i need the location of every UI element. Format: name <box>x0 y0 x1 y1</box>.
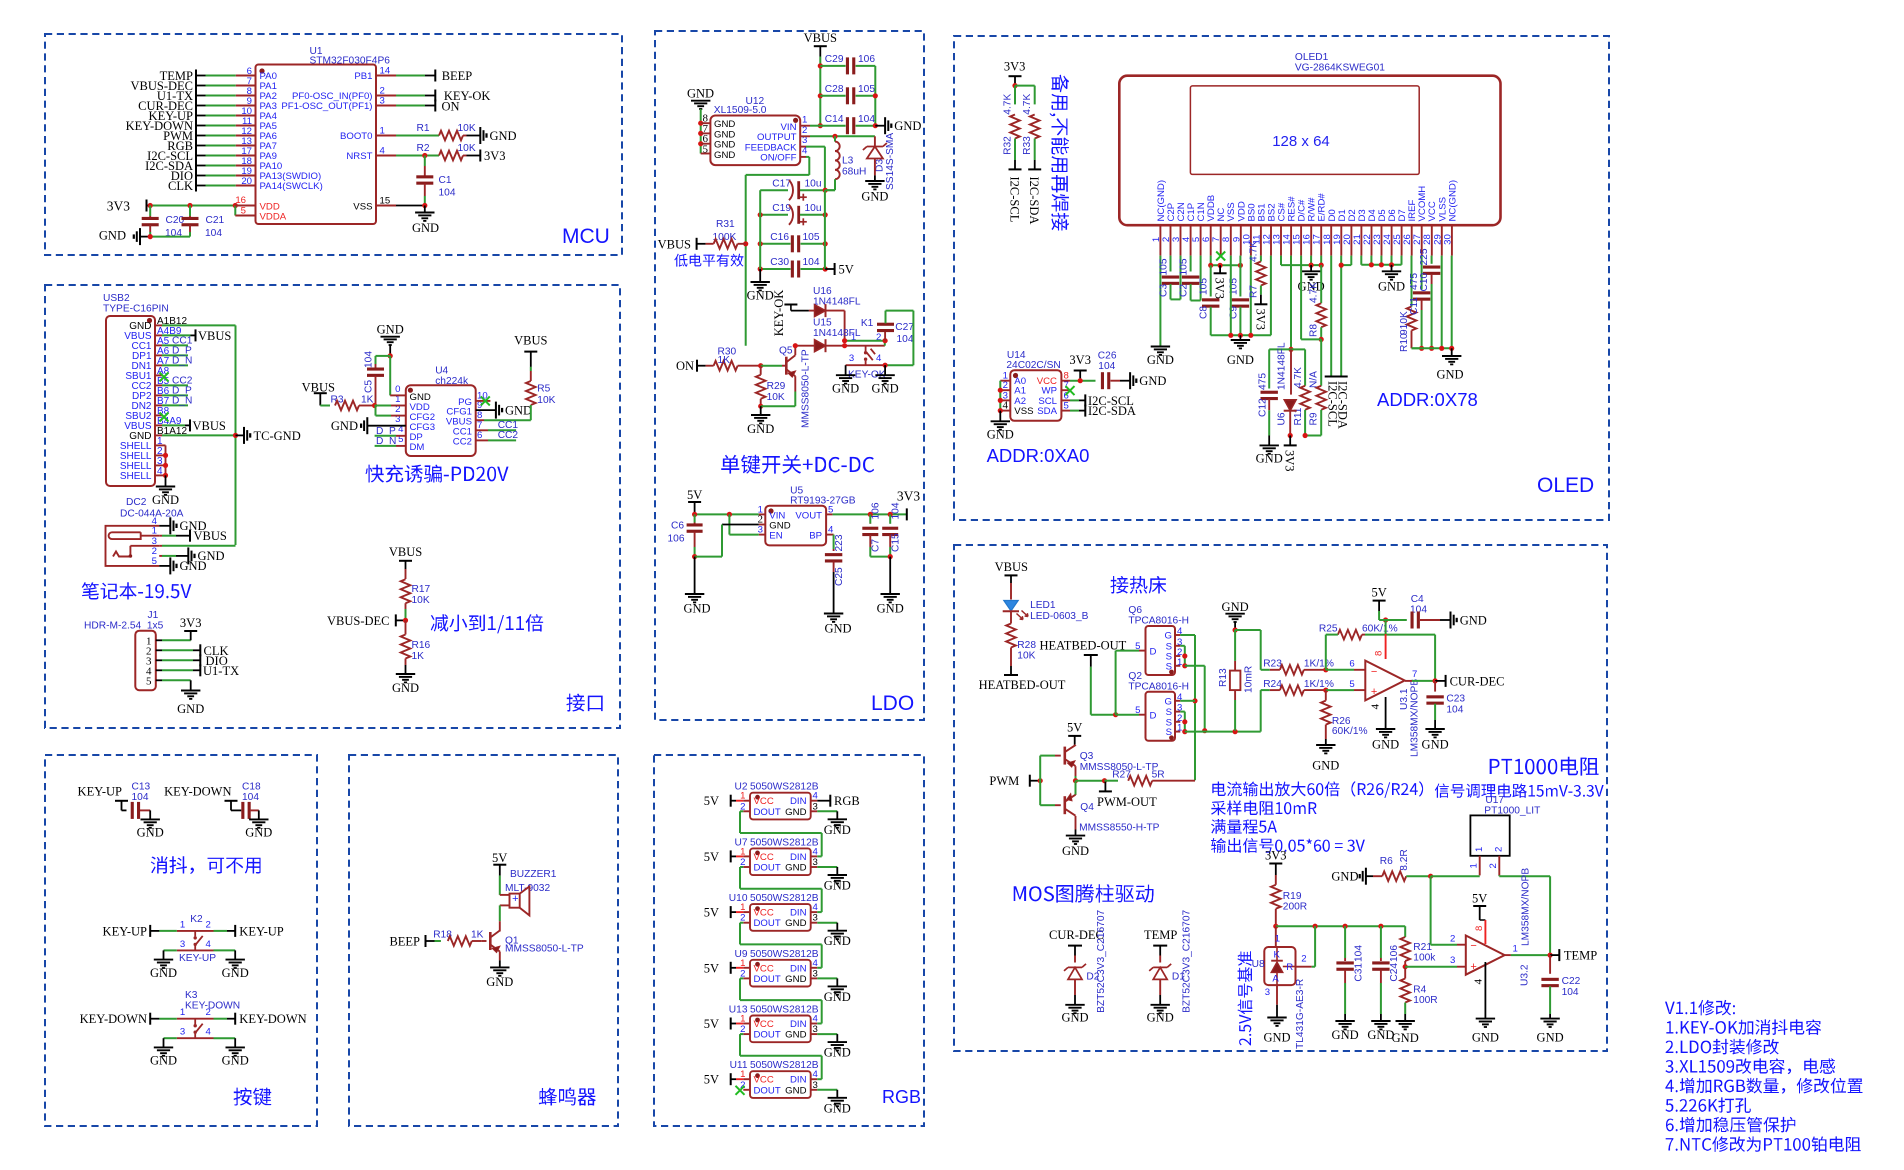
mosfet Q6 TPCA8016-H body <box>1128 605 1189 675</box>
svg-text:VBUS: VBUS <box>194 529 227 543</box>
svg-text:C25: C25 <box>834 567 845 586</box>
ground below R26 <box>1312 745 1339 773</box>
svg-text:10mR: 10mR <box>1244 666 1255 693</box>
svg-text:VBUS: VBUS <box>514 334 547 348</box>
svg-text:5050WS2812B: 5050WS2812B <box>750 893 819 904</box>
svg-text:VCC: VCC <box>754 963 774 974</box>
U1 pin 20 PA14(SWCLK) wire/net CLK <box>168 176 323 193</box>
svg-text:C11: C11 <box>1409 297 1420 315</box>
svg-text:24C02C/SN: 24C02C/SN <box>1006 360 1060 371</box>
USB2 pin A1B12 GND <box>129 316 187 332</box>
svg-text:GND: GND <box>412 221 439 235</box>
svg-text:R28: R28 <box>1017 640 1036 651</box>
svg-text:3V3: 3V3 <box>180 616 202 630</box>
svg-text:R: R <box>1286 962 1293 973</box>
svg-text:GND: GND <box>1472 1031 1499 1045</box>
note output signal <box>1211 838 1365 853</box>
svg-text:KEY-DOWN: KEY-DOWN <box>164 784 231 798</box>
resistor R5 10K <box>526 367 556 420</box>
svg-text:ADDR:0X78: ADDR:0X78 <box>1377 389 1478 410</box>
svg-text:EN: EN <box>769 531 782 542</box>
svg-text:C27: C27 <box>895 322 914 333</box>
svg-text:4.7K: 4.7K <box>1293 367 1304 388</box>
note full scale 5A <box>1211 819 1277 834</box>
U1 pin 16 VDD / pin 5 VDDA <box>235 195 286 223</box>
svg-text:TC-GND: TC-GND <box>254 429 301 443</box>
power flag 3V3 above R32 <box>1004 59 1026 88</box>
svg-text:KEY-UP: KEY-UP <box>239 924 283 938</box>
OLED1 pin 21 D3 <box>1352 209 1368 255</box>
svg-text:U17: U17 <box>1485 795 1504 806</box>
block frame keys <box>45 755 317 1126</box>
OLED1 pin 10 BS0 <box>1241 203 1257 255</box>
net flag I2C-SCL at U14 <box>1061 394 1133 408</box>
wire U7 GND pin <box>811 867 838 875</box>
J1 pin 5 <box>146 675 162 687</box>
svg-text:D: D <box>1150 646 1157 657</box>
svg-text:BP: BP <box>809 531 822 542</box>
OLED1 pin 25 D7 <box>1392 209 1408 255</box>
wire U12 FEEDBACK to 5V rail <box>800 147 825 191</box>
power flag 3V3 at U5 VOUT <box>897 489 920 521</box>
svg-text:7: 7 <box>1412 669 1417 680</box>
svg-text:+: + <box>1371 686 1377 698</box>
svg-text:GND: GND <box>222 1054 249 1068</box>
title buzzer (fengmingqi) <box>539 1088 596 1106</box>
wire DIN chain into U11 <box>811 1078 822 1080</box>
zener diode D1 BZT52C3V3 <box>1149 909 1192 1012</box>
ground left below K3 <box>150 1047 177 1067</box>
svg-text:J1: J1 <box>148 610 159 621</box>
ground flag after R1 <box>480 127 516 144</box>
title PT1000 resistor <box>1490 757 1599 776</box>
resistor R11 4.7K <box>1291 349 1310 438</box>
svg-text:475: 475 <box>1258 373 1269 390</box>
svg-text:3V3: 3V3 <box>1004 59 1026 73</box>
capacitor C23 104 <box>1426 681 1465 729</box>
svg-text:106: 106 <box>858 54 875 65</box>
reference U8 TL431G-AE3-R <box>1252 926 1307 1049</box>
svg-text:MMSS8550-H-TP: MMSS8550-H-TP <box>1079 823 1160 834</box>
svg-text:LM358MX/NOPB: LM358MX/NOPB <box>1410 679 1421 757</box>
svg-text:RT9193-27GB: RT9193-27GB <box>790 495 856 506</box>
svg-text:R19: R19 <box>1283 891 1302 902</box>
OLED1 pin 27 VCOMH <box>1412 186 1428 256</box>
svg-text:BUZZER1: BUZZER1 <box>510 869 557 880</box>
svg-text:PWM: PWM <box>989 774 1019 788</box>
svg-text:VSS: VSS <box>353 202 372 213</box>
svg-text:2: 2 <box>206 919 211 930</box>
wire DIN chain into U9 <box>811 967 822 969</box>
resistor R28 10K <box>1006 611 1036 674</box>
J1 pin5 wire to GND <box>162 680 191 690</box>
wire gate node to Q6 <box>1116 651 1146 715</box>
wire VSS/BS0/BS2 ground rail <box>1211 256 1271 338</box>
svg-text:3V3: 3V3 <box>1283 450 1297 472</box>
net flag KEY-UP right <box>214 924 284 938</box>
ground left below K2 <box>150 960 177 980</box>
chip U12 XL1509-5.0 body <box>703 96 809 165</box>
OLED1 pin 19 D1 <box>1332 209 1348 255</box>
svg-text:5V: 5V <box>1371 586 1386 600</box>
OLED1 pin 5 C1N <box>1191 202 1207 255</box>
wire gate node to Q2 <box>1116 714 1146 716</box>
svg-text:VBUS: VBUS <box>198 329 231 343</box>
svg-text:GND: GND <box>1147 353 1174 367</box>
svg-text:GND: GND <box>331 419 358 433</box>
svg-text:R31: R31 <box>716 219 735 230</box>
net label D_P on B6 <box>162 385 192 396</box>
ground below U10 <box>824 931 851 949</box>
svg-text:C30: C30 <box>770 257 789 268</box>
svg-text:R21: R21 <box>1413 942 1432 953</box>
resistor R6 8.2R <box>1373 849 1433 881</box>
svg-text:DIN: DIN <box>790 1019 807 1030</box>
svg-text:GND: GND <box>222 966 249 980</box>
power flag 5V at U10 <box>704 906 750 920</box>
svg-text:ADDR:0XA0: ADDR:0XA0 <box>987 445 1090 466</box>
ground below R29 <box>747 415 774 436</box>
capacitor C13 104 <box>131 782 151 820</box>
wire K3 pin4 to ground <box>214 1038 236 1047</box>
title fast-charge PD20V <box>365 465 508 483</box>
svg-text:K3: K3 <box>185 990 198 1001</box>
OLED1 pin 17 E/RD# <box>1312 193 1328 256</box>
power flag 5V at U7 <box>704 850 750 864</box>
svg-text:1: 1 <box>1474 847 1485 852</box>
svg-text:BEEP: BEEP <box>442 69 473 83</box>
svg-text:5V: 5V <box>687 488 702 502</box>
svg-text:4: 4 <box>876 353 882 364</box>
U1 pin 12 PA6 wire/net PWM <box>163 126 277 143</box>
block frame buzzer <box>349 755 618 1126</box>
ground right below K2 <box>222 960 249 980</box>
OLED1 pin 29 VLSS <box>1432 197 1448 256</box>
svg-text:GND: GND <box>150 966 177 980</box>
capacitor C4 104 <box>1386 594 1451 629</box>
ground below VSS <box>412 206 439 236</box>
subtitle signal conditioning <box>1435 783 1604 797</box>
power flag 3V3 at U14 VCC <box>1069 353 1091 381</box>
capacitor C3 105 (C2P-C2N) <box>1159 256 1181 300</box>
OLED1 pin 22 D4 <box>1362 209 1378 256</box>
USB2 pin B5 CC2 <box>131 376 169 392</box>
power flag 5V at U5 <box>687 488 702 514</box>
resistor R25 60K/1% feedback <box>1319 623 1435 681</box>
ground below U3.2 <box>1472 1019 1499 1045</box>
ground flag left of C20 <box>99 228 150 245</box>
ground below C12 <box>1256 445 1283 465</box>
svg-text:R33: R33 <box>1022 136 1033 155</box>
wire R23 to op-amp pin6 <box>1326 669 1366 671</box>
J1 pin2 wire net CLK <box>162 644 229 658</box>
ground below OLED pin1 <box>1147 346 1174 367</box>
svg-text:4.7K: 4.7K <box>1309 282 1320 303</box>
svg-text:KEY-DOWN: KEY-DOWN <box>185 1001 240 1012</box>
svg-text:C18: C18 <box>242 782 261 793</box>
wire 3V3 to VDD <box>147 203 238 216</box>
svg-text:200R: 200R <box>1283 902 1307 913</box>
OLED1 pin 24 D6 <box>1382 209 1398 255</box>
svg-text:K1: K1 <box>861 318 874 329</box>
svg-text:R16: R16 <box>412 640 431 651</box>
chip U9 5050WS2812B body <box>734 949 818 987</box>
capacitor C27 104 <box>877 311 914 368</box>
svg-text:GND: GND <box>1222 600 1249 614</box>
svg-text:104: 104 <box>205 228 222 239</box>
capacitor C14 104 <box>820 114 875 134</box>
svg-text:106: 106 <box>668 534 685 545</box>
J1 pin 4 <box>146 665 162 677</box>
svg-text:NRST: NRST <box>346 151 372 162</box>
svg-text:R1: R1 <box>416 123 429 134</box>
power flag 3V3 after R2 <box>480 149 505 163</box>
net flag CUR-DEC at D2 <box>1049 928 1104 956</box>
wire 3V3 rail under U6 <box>1289 436 1291 445</box>
svg-text:R32: R32 <box>1003 136 1014 155</box>
svg-text:U3.1: U3.1 <box>1399 688 1410 710</box>
svg-text:HEATBED-OUT: HEATBED-OUT <box>979 678 1066 692</box>
power flag 5V at U11 <box>704 1073 750 1087</box>
USB2 pin A4B9 VBUS <box>124 326 182 342</box>
inductor L3 68uH <box>825 136 866 190</box>
svg-text:MMSS8050-L-TP: MMSS8050-L-TP <box>505 944 584 955</box>
switch K3 labels <box>185 990 240 1012</box>
block frame DC-DC/LDO <box>655 31 924 720</box>
svg-text:60K/1%: 60K/1% <box>1332 726 1368 737</box>
svg-text:STM32F030F4P6: STM32F030F4P6 <box>310 56 391 67</box>
svg-text:Q6: Q6 <box>1128 605 1142 616</box>
svg-text:C17: C17 <box>772 179 791 190</box>
wire U12 VIN to VBUS <box>800 125 820 127</box>
ground below K1 pin4 <box>872 365 899 395</box>
svg-text:5V: 5V <box>704 1017 719 1031</box>
block frame heatbed <box>954 545 1607 1051</box>
power flag 5V above buzzer <box>492 851 507 875</box>
svg-text:3: 3 <box>1265 987 1270 998</box>
net label D_N on A7 <box>162 355 192 366</box>
svg-text:GND: GND <box>392 681 419 695</box>
wire DOUT chain from U9 <box>740 978 822 1023</box>
switch K2 labels <box>179 914 216 964</box>
wire D/C# to R8/R9 node <box>1301 256 1321 340</box>
svg-text:105: 105 <box>1159 258 1170 275</box>
svg-text:3V3: 3V3 <box>1213 278 1227 300</box>
svg-text:OLED1: OLED1 <box>1295 52 1329 63</box>
OLED1 pin 20 D2 <box>1342 209 1358 255</box>
transistor Q5 MMSS8050-L-TP <box>779 343 812 428</box>
svg-text:GND: GND <box>1378 280 1405 294</box>
OLED1 pin 28 VCC <box>1422 201 1438 255</box>
svg-text:TYPE-C16PIN: TYPE-C16PIN <box>103 304 169 315</box>
svg-text:GND: GND <box>747 422 774 436</box>
ground below C9 rail <box>1227 335 1254 367</box>
ground below C23 <box>1422 729 1449 752</box>
svg-text:TPCA8016-H: TPCA8016-H <box>1128 616 1189 627</box>
connector J1 HDR-M-2.54 1x5 body <box>84 610 164 690</box>
svg-text:2: 2 <box>1494 847 1505 852</box>
svg-text:U6: U6 <box>1277 412 1288 425</box>
svg-text:3V3: 3V3 <box>1265 848 1287 862</box>
title RGB <box>882 1087 921 1107</box>
wire VBUS vertical to VIN row <box>818 57 823 129</box>
sense resistor R13 10mR <box>1218 630 1255 731</box>
USB2 pin A5 CC1 <box>131 336 169 352</box>
net flag RGB at U2 DIN <box>811 794 860 808</box>
svg-text:GND: GND <box>872 382 899 396</box>
ground below R16 <box>392 674 419 695</box>
wire DOUT chain from U10 <box>740 923 822 968</box>
capacitor C16 105 <box>758 232 828 252</box>
ground below U9 <box>824 986 851 1004</box>
svg-text:U8: U8 <box>1252 959 1265 970</box>
svg-text:HEATBED-OUT: HEATBED-OUT <box>1040 639 1127 653</box>
U1 pin 3 PF1-OSC_OUT net ON <box>281 96 459 114</box>
svg-text:5V: 5V <box>1472 892 1487 906</box>
svg-text:GND: GND <box>785 1030 806 1041</box>
svg-text:ON/OFF: ON/OFF <box>760 153 796 164</box>
ground below C13 <box>137 819 164 839</box>
svg-text:104: 104 <box>1098 361 1115 372</box>
svg-text:GND: GND <box>785 863 806 874</box>
svg-text:5050WS2812B: 5050WS2812B <box>750 1060 819 1071</box>
svg-text:GND: GND <box>714 150 735 161</box>
DC2 pin1 wire + VBUS flag <box>159 529 227 543</box>
ground below C24 <box>1367 1021 1394 1042</box>
svg-text:I2C-SCL: I2C-SCL <box>1008 177 1022 223</box>
svg-text:1: 1 <box>1513 944 1518 955</box>
net flag I2C-SCL (OLED) <box>1325 377 1340 427</box>
svg-text:GND: GND <box>99 229 126 243</box>
svg-text:104: 104 <box>364 351 375 368</box>
svg-text:R6: R6 <box>1380 856 1393 867</box>
ground below rail 3 <box>1378 265 1405 294</box>
svg-text:GND: GND <box>824 1101 851 1115</box>
power flag 5V at U2 <box>704 794 750 808</box>
svg-text:5R: 5R <box>1152 770 1165 781</box>
wire U9 GND pin <box>811 978 838 986</box>
svg-text:104: 104 <box>1562 987 1579 998</box>
svg-text:R25: R25 <box>1319 623 1338 634</box>
power flag VBUS above R17 <box>389 545 422 569</box>
svg-text:U15: U15 <box>813 318 832 329</box>
resistor R16 1K <box>401 620 431 673</box>
svg-text:5: 5 <box>1135 705 1140 716</box>
wire DIN chain into U7 <box>811 855 822 857</box>
note 2.5V signal reference (vertical) <box>1238 951 1253 1045</box>
capacitor C29 106 <box>820 54 875 74</box>
no-connect X at U11 DOUT <box>736 1086 751 1095</box>
svg-text:223: 223 <box>834 534 845 551</box>
svg-text:K: K <box>1274 950 1281 961</box>
svg-text:Q3: Q3 <box>1080 751 1094 762</box>
Q2 source pins strap <box>1175 712 1187 735</box>
svg-text:5V: 5V <box>704 1073 719 1087</box>
svg-text:104: 104 <box>242 792 259 803</box>
wire K2 pin3 to ground <box>164 950 177 959</box>
capacitor C22 104 <box>1541 955 1580 1018</box>
switch K2 body <box>177 919 214 950</box>
svg-text:4: 4 <box>206 1027 212 1038</box>
diode U6 1N4148FL <box>1277 342 1297 438</box>
ground below rail 2 <box>1298 265 1325 293</box>
svg-text:1: 1 <box>180 919 185 930</box>
svg-text:RGB: RGB <box>882 1087 921 1107</box>
svg-text:GND: GND <box>877 602 904 616</box>
svg-text:10u: 10u <box>805 179 822 190</box>
net flag VBUS at B4A9 <box>162 419 226 433</box>
resistor R19 200R <box>1271 875 1307 929</box>
chip U5 RT9193-27GB body <box>758 485 856 545</box>
svg-text:−: − <box>1371 666 1377 678</box>
U1 pin 17 PA9 wire/net I2C-SCL <box>147 146 277 163</box>
svg-text:3: 3 <box>180 939 185 950</box>
svg-text:GND: GND <box>245 826 272 840</box>
display OLED1 VG-2864KSWEG01 body <box>1119 52 1500 225</box>
wire Q6 gate to drive rail <box>1175 635 1198 780</box>
svg-text:4: 4 <box>206 939 212 950</box>
svg-text:CLK: CLK <box>168 179 193 193</box>
wire U13 GND pin <box>811 1034 838 1042</box>
power flag VBUS above LED1 <box>995 560 1028 583</box>
svg-text:1K: 1K <box>718 355 731 366</box>
resistor R30 1K <box>676 359 763 373</box>
svg-text:10K: 10K <box>458 143 476 154</box>
svg-text:1: 1 <box>1275 934 1280 945</box>
chip U2 5050WS2812B body <box>734 782 818 820</box>
wire R13 top to R23 <box>1235 630 1270 670</box>
title MOS totem driver <box>1014 884 1154 902</box>
svg-text:R4: R4 <box>1413 985 1426 996</box>
svg-text:68uH: 68uH <box>842 167 866 178</box>
net flag HEATBED-OUT below R28 <box>979 675 1066 692</box>
svg-text:PB1: PB1 <box>354 71 372 82</box>
LED LED1 LED-0603_B <box>1003 583 1089 622</box>
power flag 5V at U13 <box>704 1017 750 1031</box>
wire VLSS/NC ground rail 4 <box>1412 256 1455 351</box>
power flag VBUS top <box>804 31 837 57</box>
svg-text:8: 8 <box>1374 651 1385 656</box>
svg-text:128 x 64: 128 x 64 <box>1272 133 1330 150</box>
ground flag right of C4 <box>1451 612 1487 629</box>
power flag 3V3 below rail <box>1213 265 1227 299</box>
svg-text:GND: GND <box>1061 1011 1088 1025</box>
svg-text:GND: GND <box>824 823 851 837</box>
svg-text:MCU: MCU <box>562 225 610 248</box>
ground flag left of R6 <box>1331 868 1373 885</box>
svg-text:GND: GND <box>687 87 714 101</box>
U1 pin 7 PA1 wire/net VBUS-DEC <box>130 76 276 93</box>
svg-text:R23: R23 <box>1263 659 1282 670</box>
J1 pin3 wire net DIO <box>162 654 228 668</box>
ground below C15 <box>877 594 904 616</box>
wire CS#/RW/ERD ground rail 2 <box>1281 256 1324 268</box>
ground flag right of C26 <box>1130 372 1166 389</box>
svg-text:GND: GND <box>1332 1028 1359 1042</box>
svg-text:GND: GND <box>137 826 164 840</box>
OLED1 pin 16 R/W# <box>1302 197 1318 256</box>
power flag 3V3 below U6 <box>1283 445 1297 471</box>
svg-text:VDDA: VDDA <box>260 212 287 223</box>
ground below U8 <box>1263 1018 1290 1045</box>
svg-text:104: 104 <box>897 334 914 345</box>
svg-text:GND: GND <box>824 879 851 893</box>
wire U12 OUTPUT row <box>800 134 875 139</box>
svg-text:1K: 1K <box>412 651 425 662</box>
ground below cap rail <box>747 282 774 303</box>
svg-text:GND: GND <box>1372 738 1399 752</box>
power flag 5V at U3.2 <box>1472 892 1487 945</box>
